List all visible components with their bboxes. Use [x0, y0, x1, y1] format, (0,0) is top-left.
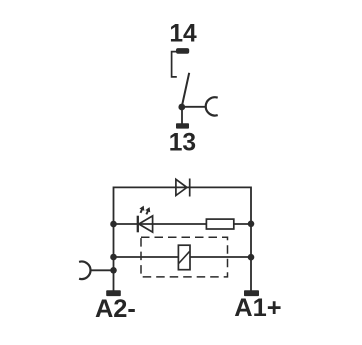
svg-text:13: 13 [169, 130, 196, 157]
svg-text:A2-: A2- [95, 295, 136, 323]
svg-text:14: 14 [169, 21, 197, 48]
svg-text:A1+: A1+ [234, 294, 281, 322]
